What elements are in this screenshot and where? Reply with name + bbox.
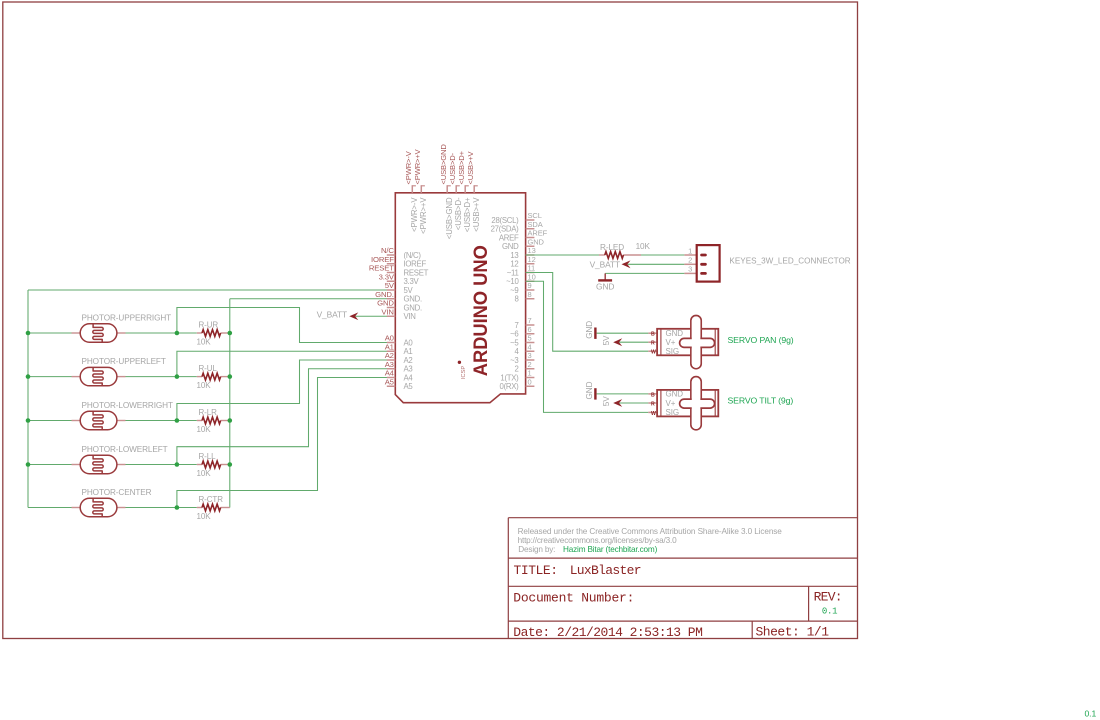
svg-text:5V: 5V — [602, 335, 611, 345]
svg-text:A2: A2 — [385, 351, 394, 360]
svg-text:PHOTOR-CENTER: PHOTOR-CENTER — [82, 488, 152, 497]
wire tilt GND — [597, 393, 649, 395]
arduino left net labels — [369, 246, 395, 386]
svg-text:VIN: VIN — [381, 307, 393, 316]
arduino top net labels — [404, 144, 475, 185]
svg-text:3.3V: 3.3V — [404, 277, 420, 286]
svg-text:R: R — [651, 341, 655, 347]
svg-text:VIN: VIN — [404, 312, 416, 321]
svg-text:GND.: GND. — [404, 303, 422, 312]
svg-text:PHOTOR-UPPERLEFT: PHOTOR-UPPERLEFT — [82, 357, 166, 366]
wire R-LED to connector pin1 — [641, 254, 684, 256]
label R-UR — [199, 321, 219, 330]
photoresistor PHOTOR-LOWERRIGHT — [72, 411, 126, 429]
svg-text:6: 6 — [528, 325, 532, 334]
connector J1 KEYES_3W_LED_CONNECTOR — [684, 245, 719, 282]
svg-text:GND: GND — [596, 281, 614, 291]
svg-text:4: 4 — [514, 347, 519, 356]
svg-text:PHOTOR-UPPERRIGHT: PHOTOR-UPPERRIGHT — [82, 314, 172, 323]
svg-text:PHOTOR-LOWERRIGHT: PHOTOR-LOWERRIGHT — [82, 401, 173, 410]
arduino pin stubs — [387, 185, 535, 386]
svg-text:A4: A4 — [385, 369, 395, 378]
svg-text:SERVO TILT (9g): SERVO TILT (9g) — [728, 396, 794, 406]
title text — [514, 563, 641, 578]
svg-text:Released under the Creative Co: Released under the Creative Commons Attr… — [518, 527, 783, 536]
svg-text:R-LR: R-LR — [199, 408, 218, 417]
svg-text:R-CTR: R-CTR — [199, 495, 224, 504]
rev label — [814, 589, 842, 604]
svg-text:<USB>D+: <USB>D+ — [457, 150, 466, 184]
resistor R-CTR — [197, 504, 230, 511]
svg-text:10K: 10K — [197, 338, 212, 347]
svg-text:28(SCL): 28(SCL) — [491, 216, 519, 225]
svg-text:<USB>GND: <USB>GND — [445, 197, 454, 239]
svg-text:(N/C): (N/C) — [404, 251, 422, 260]
resistor R-LR — [197, 417, 230, 424]
svg-text:TITLE:: TITLE: — [514, 563, 558, 578]
svg-text:A0: A0 — [385, 334, 394, 343]
wire pan V+ — [619, 341, 648, 343]
rev value 0.1 — [822, 607, 837, 617]
svg-text:R-LL: R-LL — [199, 452, 217, 461]
svg-text:5: 5 — [528, 334, 532, 343]
svg-text:0(RX): 0(RX) — [500, 382, 520, 391]
svg-text:Document Number:: Document Number: — [513, 590, 634, 605]
page rev 0.1 — [1085, 709, 1097, 719]
label KEYES_3W_LED_CONNECTOR — [729, 256, 850, 265]
svg-text:<PWR>-V: <PWR>-V — [404, 150, 413, 184]
label R-UL — [199, 364, 218, 373]
junction on GND bus row 3 — [228, 418, 233, 423]
svg-text:9: 9 — [528, 281, 532, 290]
resistor R-LL — [197, 461, 230, 468]
ground bar symbol (tilt) — [594, 388, 596, 399]
license text line 1 — [518, 527, 783, 536]
svg-text:KEYES_3W_LED_CONNECTOR: KEYES_3W_LED_CONNECTOR — [729, 256, 850, 265]
document number label — [513, 590, 634, 605]
svg-text:GND.: GND. — [375, 290, 394, 299]
svg-text:LuxBlaster: LuxBlaster — [570, 563, 641, 578]
junction node A0 row 1 — [175, 331, 180, 336]
connector pin numbers 1 2 3 — [688, 246, 692, 273]
svg-text:1(TX): 1(TX) — [500, 373, 519, 382]
wire net A3 from photoresistor row 4 — [28, 369, 387, 465]
value 10K of R-LR — [197, 425, 212, 434]
arduino name text — [470, 245, 492, 376]
svg-text:RESET: RESET — [369, 264, 394, 273]
svg-text:13: 13 — [528, 246, 536, 255]
ground bar symbol (pan) — [594, 328, 596, 339]
arduino right pin names — [491, 216, 520, 391]
arduino right net labels — [528, 211, 548, 386]
5V arrow (tilt) — [602, 396, 622, 407]
label R-LL — [199, 452, 217, 461]
svg-text:12: 12 — [528, 255, 536, 264]
value 10K of R-UR — [197, 338, 212, 347]
wire GND to arduino — [230, 298, 387, 300]
svg-text:<USB>D-: <USB>D- — [448, 152, 457, 184]
svg-text:2: 2 — [528, 360, 532, 369]
servo PAN connector — [648, 316, 718, 369]
value 10K of R-LL — [197, 469, 212, 478]
svg-text:5V: 5V — [404, 286, 414, 295]
svg-text:SCL: SCL — [528, 211, 542, 220]
ground symbol (connector) — [598, 273, 612, 280]
svg-text:R-UR: R-UR — [199, 321, 219, 330]
wire 5V top bus — [28, 289, 387, 291]
svg-text:N/C: N/C — [381, 246, 394, 255]
wire pin10 to servo tilt SIG — [526, 281, 649, 412]
label R-LR — [199, 408, 218, 417]
svg-text:10K: 10K — [197, 469, 212, 478]
junction node A3 row 4 — [175, 462, 180, 467]
svg-text:V+: V+ — [666, 399, 676, 408]
svg-text:AREF: AREF — [499, 233, 519, 242]
value 10K of R-CTR — [197, 512, 212, 521]
svg-text:10K: 10K — [197, 381, 212, 390]
title block outline — [508, 518, 857, 639]
V_BATT arrow (VIN) — [349, 312, 387, 320]
svg-text:~11: ~11 — [507, 268, 519, 277]
svg-text:A5: A5 — [404, 382, 414, 391]
svg-text:2: 2 — [514, 365, 518, 374]
svg-text:<USB>GND: <USB>GND — [439, 144, 448, 185]
svg-text:A4: A4 — [404, 373, 414, 382]
label GND rotated (tilt) — [585, 381, 594, 399]
svg-text:1: 1 — [528, 369, 532, 378]
svg-text:V_BATT: V_BATT — [317, 310, 347, 320]
resistor R-LED — [599, 252, 641, 259]
drawing frame border — [3, 2, 858, 639]
junction on 5V bus row 2 — [26, 374, 31, 379]
svg-text:SIG: SIG — [666, 347, 679, 356]
svg-text:B: B — [651, 392, 655, 398]
photoresistor PHOTOR-CENTER — [72, 498, 126, 516]
svg-text:http://creativecommons.org/lic: http://creativecommons.org/licenses/by-s… — [518, 536, 678, 545]
label GND (connector ground) — [596, 281, 614, 291]
wire pin13 to R-LED — [526, 254, 599, 256]
svg-text:Hazim Bitar (techbitar.com): Hazim Bitar (techbitar.com) — [563, 545, 658, 554]
svg-text:10K: 10K — [197, 425, 212, 434]
label PHOTOR-UPPERRIGHT — [82, 314, 172, 323]
svg-text:W: W — [651, 411, 656, 417]
svg-text:3: 3 — [688, 265, 692, 274]
svg-text:~3: ~3 — [510, 356, 518, 365]
photoresistor PHOTOR-UPPERRIGHT — [72, 324, 126, 342]
svg-text:A3: A3 — [404, 365, 413, 374]
svg-text:8: 8 — [514, 295, 518, 304]
junction on GND bus row 1 — [228, 331, 233, 336]
svg-text:10K: 10K — [197, 512, 212, 521]
wire 5V left bus vertical — [27, 290, 29, 508]
label PHOTOR-LOWERRIGHT — [82, 401, 173, 410]
svg-text:Date: 2/21/2014 2:53:13 PM: Date: 2/21/2014 2:53:13 PM — [513, 625, 702, 640]
svg-text:3: 3 — [528, 351, 532, 360]
svg-text:W: W — [651, 350, 656, 356]
resistor R-UL — [197, 373, 230, 380]
servo TILT connector — [648, 377, 718, 430]
junction on GND bus row 4 — [228, 462, 233, 467]
svg-text:R: R — [651, 401, 655, 407]
label SERVO TILT (9g) — [728, 396, 794, 406]
svg-text:1: 1 — [688, 246, 692, 255]
svg-text:<USB>+V: <USB>+V — [466, 150, 475, 184]
svg-text:<PWR>+V: <PWR>+V — [413, 148, 422, 184]
svg-text:V+: V+ — [666, 338, 676, 347]
svg-text:A3: A3 — [385, 360, 394, 369]
license text line 2 — [518, 536, 678, 545]
svg-text:ARDUINO UNO: ARDUINO UNO — [470, 245, 492, 376]
svg-text:IOREF: IOREF — [404, 260, 427, 269]
svg-text:RESET: RESET — [404, 268, 429, 277]
svg-text:4: 4 — [528, 342, 532, 351]
svg-text:A2: A2 — [404, 356, 413, 365]
svg-text:Design by:: Design by: — [518, 545, 555, 554]
junction node A2 row 3 — [175, 418, 180, 423]
wire connector pin3 to GND — [605, 272, 684, 274]
label PHOTOR-CENTER — [82, 488, 152, 497]
svg-text:8: 8 — [528, 290, 532, 299]
svg-text:<PWR>+V: <PWR>+V — [419, 197, 428, 234]
junction on 5V bus row 3 — [26, 418, 31, 423]
wire net A4 from photoresistor row 5 — [28, 378, 387, 508]
svg-text:~6: ~6 — [510, 330, 518, 339]
svg-text:5V: 5V — [385, 281, 395, 290]
svg-text:<USB>D-: <USB>D- — [454, 197, 463, 230]
svg-text:2: 2 — [688, 256, 692, 265]
svg-text:10: 10 — [528, 272, 536, 281]
label R-LED — [600, 243, 624, 252]
svg-text:10K: 10K — [636, 242, 651, 251]
svg-text:V_BATT: V_BATT — [590, 259, 620, 269]
svg-text:A1: A1 — [385, 342, 394, 351]
svg-text:~9: ~9 — [510, 286, 518, 295]
svg-text:R-UL: R-UL — [199, 364, 218, 373]
net label V_BATT (connector) — [590, 259, 620, 269]
svg-text:27(SDA): 27(SDA) — [491, 225, 520, 234]
svg-text:GND: GND — [666, 329, 684, 338]
label GND rotated (pan) — [585, 321, 594, 339]
wire pin11 to servo pan SIG — [526, 273, 649, 352]
arduino left pin names — [404, 251, 429, 391]
svg-text:12: 12 — [510, 260, 518, 269]
junction node A4 row 5 — [175, 505, 180, 510]
5V arrow (pan) — [602, 335, 622, 346]
value 10K of R-LED — [636, 242, 651, 251]
net label V_BATT (VIN) — [317, 310, 347, 320]
arduino top pin names — [410, 197, 481, 240]
svg-text:~5: ~5 — [510, 338, 519, 347]
svg-text:AREF: AREF — [528, 229, 548, 238]
svg-text:<USB>D+: <USB>D+ — [463, 197, 472, 232]
resistor R-UR — [197, 330, 230, 337]
wire pan GND — [597, 332, 649, 334]
svg-text:REV:: REV: — [814, 589, 842, 604]
svg-text:SIG: SIG — [666, 408, 679, 417]
svg-text:GND.: GND. — [404, 295, 422, 304]
wire net A0 from photoresistor row 1 — [28, 308, 387, 343]
photoresistor PHOTOR-UPPERLEFT — [72, 367, 126, 385]
svg-text:SDA: SDA — [528, 220, 543, 229]
date text — [513, 625, 702, 640]
sheet text — [756, 624, 830, 639]
design by line — [518, 545, 657, 554]
value 10K of R-UL — [197, 381, 212, 390]
svg-text:5V: 5V — [602, 396, 611, 406]
svg-text:GND: GND — [502, 242, 519, 251]
svg-text:GND: GND — [528, 237, 545, 246]
label PHOTOR-UPPERLEFT — [82, 357, 166, 366]
svg-text:GND: GND — [585, 381, 594, 399]
svg-text:A0: A0 — [404, 338, 414, 347]
svg-text:<PWR>-V: <PWR>-V — [410, 197, 419, 232]
wire net A2 from photoresistor row 3 — [28, 360, 387, 421]
svg-text:7: 7 — [514, 321, 518, 330]
svg-text:ICSP: ICSP — [461, 366, 467, 379]
wire tilt V+ — [619, 402, 648, 404]
junction on 5V bus row 4 — [26, 462, 31, 467]
svg-text:~10: ~10 — [506, 277, 519, 286]
svg-text:<USB>+V: <USB>+V — [472, 197, 481, 232]
junction on 5V bus row 1 — [26, 331, 31, 336]
svg-text:IOREF: IOREF — [371, 255, 394, 264]
svg-text:PHOTOR-LOWERLEFT: PHOTOR-LOWERLEFT — [82, 445, 168, 454]
svg-text:GND: GND — [585, 321, 594, 339]
svg-text:SERVO PAN (9g): SERVO PAN (9g) — [728, 335, 794, 345]
svg-text:0.1: 0.1 — [822, 607, 837, 617]
label R-CTR — [199, 495, 224, 504]
V_BATT arrow (connector) — [622, 260, 685, 268]
photoresistor PHOTOR-LOWERLEFT — [72, 455, 126, 473]
junction on GND bus row 2 — [228, 374, 233, 379]
icsp marking — [458, 361, 467, 379]
svg-text:13: 13 — [510, 251, 518, 260]
svg-text:A5: A5 — [385, 377, 394, 386]
svg-text:B: B — [651, 332, 655, 338]
label SERVO PAN (9g) — [728, 335, 794, 345]
svg-text:11: 11 — [528, 264, 536, 273]
svg-text:0: 0 — [528, 377, 532, 386]
arduino U1 outline — [395, 193, 525, 403]
wire GND bus vertical — [229, 299, 231, 508]
svg-text:0.1: 0.1 — [1085, 709, 1097, 719]
svg-text:7: 7 — [528, 316, 532, 325]
svg-text:GND: GND — [666, 390, 684, 399]
svg-text:A1: A1 — [404, 347, 413, 356]
svg-text:3.3V: 3.3V — [379, 272, 395, 281]
wire net A1 from photoresistor row 2 — [28, 351, 387, 376]
label PHOTOR-LOWERLEFT — [82, 445, 168, 454]
svg-text:R-LED: R-LED — [600, 243, 624, 252]
svg-text:GND: GND — [377, 299, 394, 308]
junction node A1 row 2 — [175, 374, 180, 379]
svg-text:Sheet: 1/1: Sheet: 1/1 — [756, 624, 830, 639]
